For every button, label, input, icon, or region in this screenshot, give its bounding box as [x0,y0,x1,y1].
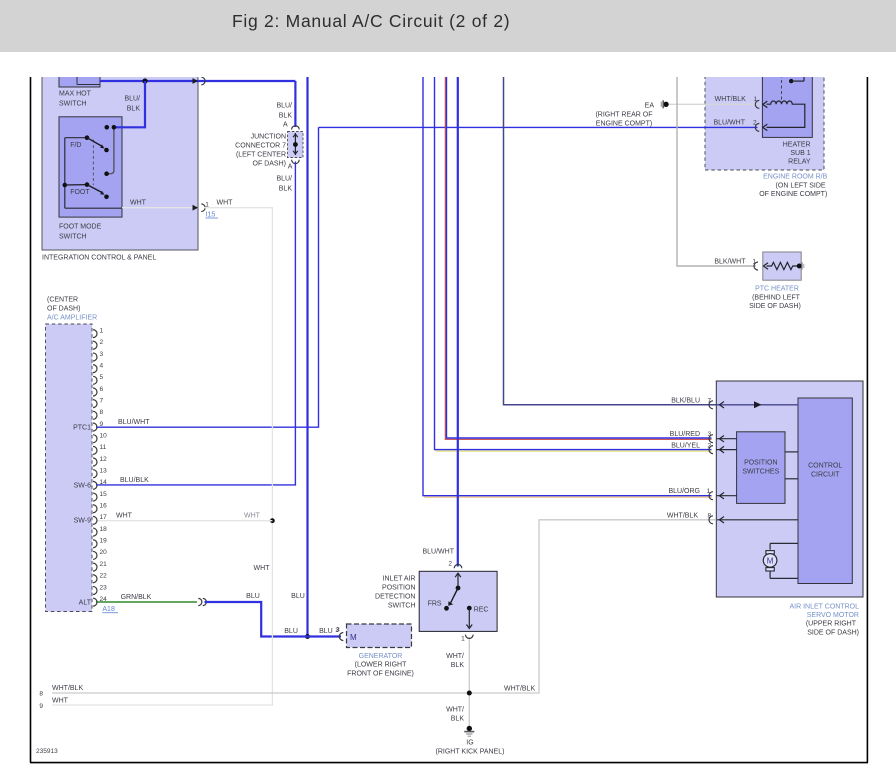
svg-text:BLK: BLK [279,113,293,120]
svg-text:OF ENGINE COMPT): OF ENGINE COMPT) [759,191,827,198]
svg-text:(CENTER: (CENTER [47,297,78,304]
svg-text:2: 2 [708,443,712,450]
svg-text:12: 12 [100,456,108,463]
svg-text:FOOT: FOOT [70,189,90,196]
svg-text:FRS: FRS [428,600,442,607]
svg-text:BLU/ORG: BLU/ORG [668,488,700,495]
svg-text:5: 5 [100,374,104,381]
svg-text:18: 18 [100,526,108,533]
svg-text:23: 23 [100,584,108,591]
svg-text:6: 6 [100,386,104,393]
svg-text:BLU: BLU [291,593,305,600]
svg-text:POSITION: POSITION [382,584,415,591]
svg-text:WHT/: WHT/ [446,707,464,714]
svg-text:SWITCH: SWITCH [388,602,416,609]
svg-text:POSITION: POSITION [744,459,777,466]
svg-text:GRN/BLK: GRN/BLK [121,594,152,601]
svg-text:BLU/WHT: BLU/WHT [118,419,150,426]
svg-text:8: 8 [100,409,104,416]
svg-text:WHT/BLK: WHT/BLK [504,685,535,692]
svg-text:1: 1 [707,488,711,495]
svg-text:BLK: BLK [451,662,465,669]
svg-text:A: A [288,163,293,170]
svg-text:JUNCTION: JUNCTION [251,134,286,141]
svg-text:10: 10 [100,432,108,439]
svg-text:BLU/RED: BLU/RED [670,431,700,438]
svg-text:MAX HOT: MAX HOT [59,91,92,98]
svg-text:15: 15 [100,491,108,498]
svg-text:(LOWER RIGHT: (LOWER RIGHT [355,662,407,669]
svg-text:BLU/BLK: BLU/BLK [120,477,149,484]
svg-text:HEATER: HEATER [783,141,811,148]
svg-text:WHT/BLK: WHT/BLK [715,96,746,103]
svg-text:7: 7 [708,397,712,404]
svg-text:235913: 235913 [36,748,58,755]
svg-text:F/D: F/D [70,142,81,149]
svg-text:BLU/: BLU/ [124,96,140,103]
svg-text:2: 2 [448,560,452,567]
svg-text:SWITCH: SWITCH [59,234,87,241]
svg-text:1: 1 [753,258,757,265]
svg-text:SIDE OF DASH): SIDE OF DASH) [807,629,859,636]
svg-text:3: 3 [100,351,104,358]
svg-text:11: 11 [100,444,107,451]
svg-text:CONTROL: CONTROL [808,463,842,470]
svg-text:1: 1 [754,96,758,103]
svg-text:BLK: BLK [279,186,293,193]
svg-text:WHT: WHT [244,513,261,520]
svg-text:BLU/: BLU/ [276,176,292,183]
svg-text:WHT/: WHT/ [446,653,464,660]
svg-text:2: 2 [753,119,757,126]
svg-text:INTEGRATION CONTROL & PANEL: INTEGRATION CONTROL & PANEL [42,255,156,262]
svg-text:8: 8 [39,690,43,697]
svg-text:1: 1 [100,327,104,334]
svg-text:BLU: BLU [319,628,333,635]
svg-text:BLK: BLK [451,716,465,723]
svg-text:2: 2 [100,339,104,346]
svg-text:ALT: ALT [79,599,92,606]
svg-text:INLET AIR: INLET AIR [383,575,416,582]
svg-text:24: 24 [100,596,108,603]
svg-text:WHT/BLK: WHT/BLK [667,512,698,519]
svg-text:DETECTION: DETECTION [375,593,415,600]
svg-text:BLK/WHT: BLK/WHT [714,258,746,265]
svg-text:BLK: BLK [127,106,141,113]
svg-text:17: 17 [100,514,108,521]
svg-text:16: 16 [100,503,108,510]
svg-text:SW-9: SW-9 [74,518,91,525]
svg-text:7: 7 [100,397,104,404]
svg-text:8: 8 [708,512,712,519]
svg-text:SIDE OF DASH): SIDE OF DASH) [749,303,801,310]
svg-text:BLU/: BLU/ [276,103,292,110]
svg-text:21: 21 [100,561,108,568]
svg-text:3: 3 [708,431,712,438]
svg-text:ENGINE COMPT): ENGINE COMPT) [596,121,652,128]
svg-text:BLU: BLU [246,593,260,600]
svg-text:EA: EA [645,102,655,109]
svg-text:IG: IG [466,740,473,747]
svg-text:(BEHIND LEFT: (BEHIND LEFT [752,294,801,301]
svg-text:I15: I15 [206,212,216,219]
svg-text:SW-6: SW-6 [74,482,91,489]
svg-text:20: 20 [100,549,108,556]
svg-text:3: 3 [335,627,339,634]
svg-text:BLU/WHT: BLU/WHT [714,119,746,126]
svg-text:9: 9 [100,421,104,428]
svg-text:RELAY: RELAY [788,158,811,165]
svg-text:1: 1 [205,201,209,208]
svg-text:AIR INLET CONTROL: AIR INLET CONTROL [790,603,860,610]
svg-text:(LEFT CENTER: (LEFT CENTER [236,152,286,159]
svg-text:FRONT OF ENGINE): FRONT OF ENGINE) [347,670,414,677]
svg-text:REC: REC [474,606,489,613]
svg-text:WHT: WHT [217,200,234,207]
svg-text:A/C AMPLIFIER: A/C AMPLIFIER [47,315,97,322]
svg-text:BLU/WHT: BLU/WHT [423,548,455,555]
svg-text:4: 4 [100,362,104,369]
svg-text:22: 22 [100,573,108,580]
svg-text:(RIGHT KICK PANEL): (RIGHT KICK PANEL) [436,749,505,756]
svg-text:M: M [767,557,774,566]
svg-text:A18: A18 [102,606,115,613]
svg-text:WHT: WHT [254,565,271,572]
svg-text:WHT/BLK: WHT/BLK [52,685,83,692]
svg-text:FOOT MODE: FOOT MODE [59,224,102,231]
svg-text:(ON LEFT SIDE: (ON LEFT SIDE [776,182,826,189]
svg-text:SWITCH: SWITCH [59,101,87,108]
svg-text:GENERATOR: GENERATOR [359,653,403,660]
svg-text:19: 19 [100,538,108,545]
svg-text:1: 1 [461,635,465,642]
svg-text:PTC HEATER: PTC HEATER [755,285,799,292]
svg-text:CONNECTOR 7: CONNECTOR 7 [235,143,286,150]
svg-text:PTC1: PTC1 [73,425,91,432]
svg-text:SWITCHES: SWITCHES [742,468,779,475]
svg-text:(UPPER RIGHT: (UPPER RIGHT [806,621,857,628]
svg-text:9: 9 [39,703,43,710]
svg-text:BLU: BLU [284,628,298,635]
svg-text:Fig 2: Manual A/C Circuit (2 o: Fig 2: Manual A/C Circuit (2 of 2) [232,11,510,31]
svg-text:WHT: WHT [52,698,69,705]
svg-text:M: M [350,633,357,642]
svg-text:CIRCUIT: CIRCUIT [811,472,840,479]
svg-text:ENGINE ROOM R/B: ENGINE ROOM R/B [763,174,828,181]
svg-text:SUB 1: SUB 1 [790,150,810,157]
svg-text:14: 14 [100,479,108,486]
svg-text:13: 13 [100,468,108,475]
svg-text:SERVO MOTOR: SERVO MOTOR [807,612,859,619]
svg-text:WHT: WHT [130,200,147,207]
svg-text:OF DASH): OF DASH) [253,161,286,168]
svg-text:A: A [283,121,288,128]
svg-text:BLK/BLU: BLK/BLU [671,397,700,404]
svg-text:(RIGHT REAR OF: (RIGHT REAR OF [595,112,652,119]
svg-text:WHT: WHT [116,513,133,520]
svg-text:BLU/YEL: BLU/YEL [671,443,700,450]
svg-text:OF DASH): OF DASH) [47,306,80,313]
